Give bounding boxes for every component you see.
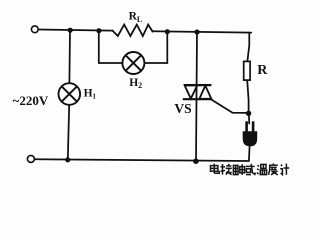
wire plug bottom stub: [248, 146, 251, 161]
resistor R body: [244, 61, 250, 80]
node dot bottom wire at VS: [193, 158, 199, 164]
wire lamp H1 top lead: [68, 30, 71, 83]
triac VS: [183, 85, 212, 99]
plug connector (thermometer plug): [243, 121, 258, 146]
wire H2 loop right horizontal: [144, 62, 167, 64]
wire right vertical (top wire to resistor R): [247, 33, 249, 62]
node dot top wire at H2 right: [165, 29, 170, 34]
svg-text:VS: VS: [174, 101, 191, 116]
lamp H2: [122, 52, 144, 74]
wire lamp H1 bottom lead: [68, 105, 69, 160]
wire VS vertical through: [196, 32, 197, 161]
char 接: [221, 164, 232, 175]
terminal top-left: [31, 26, 38, 33]
wire top horizontal left: [38, 30, 113, 31]
wire bottom horizontal: [34, 159, 249, 161]
svg-text:~220V: ~220V: [13, 93, 49, 108]
terminal bottom-left: [27, 155, 34, 162]
wire H2 loop left horizontal: [99, 62, 123, 64]
wire H2 loop right vertical: [166, 32, 168, 63]
char 温: [257, 164, 267, 174]
label: Chinese caption 电接触式温度计 (drawn strokes): [211, 163, 290, 174]
node dot gate/R/plug junction: [246, 111, 251, 116]
wire top horizontal right: [153, 31, 252, 32]
node dot top wire at VS: [194, 29, 199, 34]
node dot bottom wire at H1: [65, 157, 70, 162]
wire H2 loop left vertical: [98, 31, 100, 63]
wire gate diagonal from VS: [211, 99, 249, 113]
char 式: [246, 164, 256, 175]
wire plug top stub: [248, 113, 250, 123]
lamp H1: [59, 83, 81, 105]
char 度: [269, 163, 278, 174]
wire resistor R bottom to node G: [247, 80, 248, 111]
svg-text:R: R: [257, 63, 268, 78]
resistor RL zigzag: [113, 25, 153, 36]
char 触: [233, 164, 244, 175]
char 电: [211, 164, 220, 174]
char 计: [280, 164, 289, 175]
node dot top wire at H2 left: [96, 28, 101, 33]
node dot top wire at H1: [68, 28, 73, 33]
